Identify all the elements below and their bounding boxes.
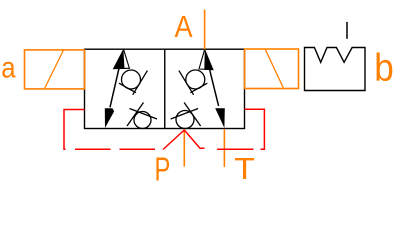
check valve circle left-bottom xyxy=(134,112,151,129)
pilot dashed segment 3 xyxy=(217,148,254,150)
valve body outer rectangle xyxy=(85,49,245,128)
drain tick above detent box xyxy=(346,22,348,39)
right arrow top head outline xyxy=(199,50,213,70)
check valve seat right-bottom xyxy=(184,103,201,127)
svg-text:T: T xyxy=(234,151,255,185)
solenoid a diagonal xyxy=(44,50,63,89)
solenoid box b (orange) xyxy=(245,49,299,89)
solenoid b diagonal xyxy=(265,49,283,87)
check valve circle left-top xyxy=(122,70,141,89)
svg-text:A: A xyxy=(175,11,194,45)
port A line (orange) xyxy=(204,10,206,50)
detent box with notched top xyxy=(305,48,366,91)
check valve seat left-bottom xyxy=(127,103,144,127)
check valve seat right-top xyxy=(179,71,194,95)
pilot dashed segment 2 xyxy=(120,148,156,150)
svg-text:a: a xyxy=(1,51,16,84)
port P line (orange) xyxy=(183,129,185,167)
right arrow top head fill xyxy=(204,49,213,70)
check valve circle right-top xyxy=(186,70,205,89)
valve position divider xyxy=(164,49,166,128)
right arrow bottom head xyxy=(215,108,225,128)
svg-text:b: b xyxy=(374,45,394,89)
right square flow arrow shaft xyxy=(210,70,219,107)
left square flow arrow shaft xyxy=(110,67,119,108)
left arrow top head fill xyxy=(114,49,125,69)
pilot diagonal to P junction (left) xyxy=(163,130,184,150)
svg-text:P: P xyxy=(155,152,171,189)
left arrow top head outline xyxy=(114,50,130,69)
pilot dashed segment 1 xyxy=(75,148,111,150)
left arrow bottom head xyxy=(105,108,114,128)
check valve circle right-bottom xyxy=(176,111,194,129)
port T line (orange) xyxy=(223,129,225,167)
solenoid box a (orange) xyxy=(25,50,85,89)
pilot diagonal from P junction (right) xyxy=(184,130,204,148)
check valve seat left-top xyxy=(133,71,148,95)
pilot line right attach (red) xyxy=(245,109,265,149)
pilot line left attach (red) xyxy=(64,110,85,150)
